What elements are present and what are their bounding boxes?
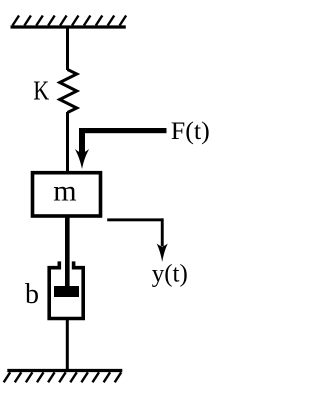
damper piston — [54, 286, 79, 297]
wire: spring to mass — [66, 112, 69, 172]
svg-text:K: K — [33, 76, 49, 106]
svg-text:m: m — [53, 175, 76, 208]
spring K — [60, 70, 77, 113]
top fixed wall — [11, 16, 127, 28]
wire: damper to ground — [66, 319, 69, 372]
piston rod: mass to damper piston — [65, 216, 70, 288]
bottom fixed wall — [4, 371, 123, 383]
svg-text:F(t): F(t) — [171, 118, 210, 145]
svg-text:y(t): y(t) — [152, 261, 188, 288]
wire: wall to spring — [66, 27, 69, 70]
damper cylinder b — [49, 261, 83, 318]
force arrow F(t) — [75, 128, 167, 169]
svg-text:b: b — [25, 279, 39, 310]
mass m — [33, 173, 101, 216]
wire: displacement reference y(t) — [107, 218, 168, 262]
